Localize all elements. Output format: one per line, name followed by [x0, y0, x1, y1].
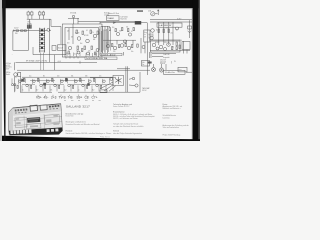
transistor Q24	[123, 40, 126, 43]
svg-text:Mikrofon und Batterien +: Mikrofon und Batterien +	[163, 107, 181, 110]
transistor Q20	[96, 84, 99, 87]
svg-text:100u: 100u	[164, 42, 167, 44]
scan frame bands	[0, 0, 200, 141]
resistor R11	[163, 29, 165, 33]
electrolytic C6	[22, 79, 24, 81]
spec text column right	[163, 103, 190, 137]
svg-text:2x BC148B AC188K TBA: 2x BC148B AC188K TBA	[86, 57, 108, 60]
power box PSU	[178, 67, 187, 72]
connector block box	[164, 70, 186, 74]
earphone jack J2	[188, 20, 192, 38]
transistor Q26	[106, 44, 110, 48]
transistor Q8	[167, 43, 171, 47]
transistor Q28	[120, 44, 124, 48]
svg-text:1R6: 1R6	[15, 33, 18, 35]
resistor R27	[115, 29, 116, 32]
svg-text:5k6: 5k6	[80, 43, 82, 45]
module box U1	[58, 45, 67, 51]
resistor R38	[176, 47, 177, 50]
svg-text:Reg: Reg	[144, 32, 147, 34]
electrolytic C9	[88, 84, 90, 86]
wire filter drop	[140, 38, 142, 53]
svg-text:S9+: S9+	[77, 95, 83, 99]
svg-text:220u 10V: 220u 10V	[160, 61, 166, 63]
resistor R12	[168, 29, 170, 33]
svg-text:Kassetten-Recorder mit Mikrofo: Kassetten-Recorder mit Mikrofon und Netz…	[66, 123, 101, 126]
svg-text:9V: 9V	[174, 61, 176, 63]
wire to cap	[100, 22, 147, 27]
resistor R4	[82, 31, 84, 35]
pulley P1	[132, 77, 135, 80]
label plate upper	[100, 52, 124, 56]
svg-text:SALLAND 3217: SALLAND 3217	[66, 104, 90, 108]
svg-text:7-B: 7-B	[68, 96, 73, 100]
wire lower schematic top border	[22, 76, 116, 78]
svg-text:Preisliste: Preisliste	[66, 129, 73, 132]
panel seams	[13, 112, 62, 133]
schematic tiny annotation texts	[6, 10, 183, 93]
svg-text:Geräte und Zubehör DM 248,- mi: Geräte und Zubehör DM 248,- mit allen Un…	[66, 132, 112, 135]
transistor Q35	[87, 52, 90, 55]
svg-text:DM 22,- mit Gehäuse und Taste: DM 22,- mit Gehäuse und Tasten	[113, 117, 138, 120]
svg-text:22k: 22k	[67, 31, 70, 33]
svg-text:2x 0,5W: 2x 0,5W	[149, 36, 155, 38]
svg-text:C7+: C7+	[92, 95, 98, 99]
svg-text:~: ~	[12, 54, 13, 56]
svg-text:Philips GmbH Hamburg: Philips GmbH Hamburg	[163, 133, 181, 136]
transistor Q32	[142, 46, 145, 49]
DIN socket J3	[11, 72, 20, 85]
resistor R13	[17, 85, 18, 88]
resistor R22	[80, 78, 81, 81]
resistor R39	[137, 44, 138, 47]
svg-text:47u: 47u	[99, 76, 102, 78]
motor switch box	[142, 61, 150, 67]
svg-text:0,2mV: 0,2mV	[14, 27, 18, 29]
svg-text:68k: 68k	[93, 39, 96, 41]
svg-text:6,3V~: 6,3V~	[177, 18, 182, 20]
front panel	[13, 112, 62, 135]
legend node C8	[85, 95, 89, 100]
svg-text:10u: 10u	[29, 76, 32, 78]
transistor Q11	[33, 80, 36, 83]
legend node 2P	[51, 95, 57, 100]
transistor Q15	[61, 80, 64, 83]
output stage frame	[151, 41, 181, 52]
svg-text:470u 16V: 470u 16V	[160, 60, 166, 62]
resistor R26	[109, 28, 110, 31]
wire arrow up	[155, 10, 159, 15]
wire lower mid lines	[22, 78, 113, 85]
wire lower link	[33, 47, 66, 55]
resistor R42	[95, 52, 96, 55]
transistor Q19	[89, 80, 92, 83]
spec text column center-right	[113, 103, 155, 135]
svg-text:10n: 10n	[131, 51, 134, 53]
wire block drops	[66, 57, 96, 64]
front section outlines	[15, 114, 60, 129]
transistor Q7	[159, 45, 163, 49]
svg-text:6V: 6V	[144, 36, 146, 38]
svg-text:}: }	[171, 60, 172, 64]
transistor Q17	[75, 80, 78, 83]
resistor R41	[82, 49, 83, 52]
transistor Q10	[26, 84, 29, 87]
resistor R15	[31, 85, 32, 88]
wire bottom right return	[166, 64, 192, 72]
svg-text:V5+: V5+	[36, 96, 42, 100]
cassette door	[27, 117, 40, 123]
amplifier block frame	[62, 24, 102, 57]
svg-text:1n: 1n	[78, 89, 80, 91]
svg-text:BC: BC	[43, 76, 45, 78]
resistor R31	[112, 44, 113, 47]
transistor Q14	[54, 84, 57, 87]
wire belt	[129, 79, 135, 86]
svg-text:100u 6V: 100u 6V	[160, 63, 165, 65]
svg-text:56: 56	[176, 30, 178, 32]
switch bank S1	[39, 28, 45, 53]
wire mid cluster bus	[103, 40, 136, 44]
svg-text:N 2217/00: N 2217/00	[66, 116, 74, 118]
svg-text:2n: 2n	[131, 31, 133, 33]
svg-text:TBA641: TBA641	[107, 17, 114, 20]
svg-text:2k2: 2k2	[171, 33, 173, 35]
lamp LA2	[151, 64, 155, 72]
svg-text:25u: 25u	[74, 54, 77, 56]
legend node 4S	[44, 95, 49, 100]
transistor Q3	[93, 34, 97, 38]
resistor R17	[45, 85, 46, 88]
svg-text:BC149: BC149	[75, 33, 79, 35]
wire motor leads	[100, 82, 116, 91]
svg-text:220: 220	[88, 51, 91, 53]
transistor Q5	[150, 36, 154, 40]
microphone jack J1	[12, 30, 15, 32]
transistor Q31	[164, 48, 167, 51]
pulley P2	[135, 84, 138, 87]
legend node V5	[36, 95, 42, 100]
resistor R36	[179, 45, 181, 49]
svg-text:Sw: Sw	[142, 64, 144, 66]
svg-text:8k2: 8k2	[104, 30, 106, 32]
transistor Q12	[40, 84, 43, 87]
svg-text:C8: C8	[85, 96, 89, 100]
knob row left	[15, 108, 28, 113]
svg-text:6x1,5V: 6x1,5V	[6, 65, 10, 67]
svg-text:TV-S: TV-S	[59, 95, 66, 99]
svg-text:0,1: 0,1	[86, 30, 88, 32]
svg-text:330: 330	[85, 76, 88, 78]
erase head K2	[39, 11, 45, 19]
wire motor bus pair	[117, 66, 130, 92]
wire right verticals	[159, 22, 173, 45]
transistor Q36	[96, 49, 99, 52]
svg-text:100u: 100u	[76, 51, 79, 53]
wire feeder marks	[150, 52, 152, 58]
transistor Q23	[116, 32, 119, 35]
svg-text:15k: 15k	[126, 27, 129, 29]
wire output bus	[149, 39, 180, 41]
resistor R16	[38, 78, 39, 81]
top edge line	[13, 104, 61, 109]
piano keys	[10, 129, 31, 134]
label plate lower	[85, 57, 117, 60]
idler wheel	[110, 78, 113, 81]
wire top dash	[137, 10, 143, 11]
side face	[9, 108, 14, 136]
svg-text:56k: 56k	[71, 76, 74, 78]
resistor R30	[133, 28, 134, 31]
svg-text:B-30: B-30	[149, 38, 152, 40]
svg-text:Teile sind vorbehalten: Teile sind vorbehalten	[163, 126, 179, 129]
svg-text:4,7k: 4,7k	[91, 32, 94, 34]
legend node 7B	[68, 95, 73, 100]
svg-text:100: 100	[57, 76, 60, 78]
resistor R2b	[24, 30, 26, 31]
svg-text:B30: B30	[180, 40, 183, 42]
transistor Q21	[103, 80, 106, 83]
transistor Q9	[19, 80, 22, 83]
svg-text:4k7: 4k7	[36, 89, 38, 91]
transistor Q34	[77, 51, 80, 54]
svg-text:1k5: 1k5	[112, 27, 114, 29]
filter box F1	[144, 30, 150, 42]
resistor R21	[73, 85, 74, 88]
wire right feeder	[147, 23, 149, 75]
wire switch drops	[41, 53, 44, 71]
resistor R28	[122, 28, 123, 31]
resistor R25	[101, 85, 102, 88]
capacitor bank C5	[12, 78, 113, 92]
legend symbol row	[36, 95, 98, 100]
transistor Q2	[86, 39, 90, 43]
resistor R10	[158, 29, 160, 33]
transistor Q37	[176, 27, 179, 30]
svg-text:0,5: 0,5	[172, 47, 174, 49]
resistor R19	[59, 85, 60, 88]
resistor R5	[90, 30, 92, 34]
svg-text:DIN 5p: DIN 5p	[6, 72, 11, 74]
label box IC type	[107, 16, 120, 21]
resistor R29	[128, 29, 129, 32]
oscillator coil L1	[27, 25, 31, 28]
VU meter right	[40, 104, 48, 110]
capacitor C1	[52, 46, 56, 51]
fuse F2	[148, 62, 151, 63]
wire mid bus	[14, 62, 97, 70]
svg-text:4S-: 4S-	[44, 95, 49, 99]
resistor R3	[76, 30, 78, 34]
wire input line	[13, 30, 51, 32]
svg-text:BC148: BC148	[84, 35, 88, 37]
svg-text:3n3: 3n3	[67, 43, 70, 45]
transistor Q1	[77, 37, 81, 41]
wire left rail	[13, 28, 29, 50]
label box output	[157, 23, 182, 27]
wire top right rail	[150, 20, 192, 23]
resistor R6	[97, 31, 99, 35]
resistor R33	[125, 44, 126, 47]
svg-text:8k2: 8k2	[92, 89, 94, 91]
resistor R9	[91, 46, 93, 50]
transistor Q6	[152, 43, 156, 47]
resistor R32	[119, 45, 120, 48]
svg-text:2+3: 2+3	[51, 96, 57, 100]
transistor Q29	[127, 46, 131, 50]
svg-text:220: 220	[113, 51, 116, 53]
wire block feed	[69, 24, 73, 44]
transistor Q30	[156, 47, 159, 50]
svg-text:220V~: 220V~	[6, 68, 10, 70]
svg-text:nur über den Werkstatt-Service: nur über den Werkstatt-Service erhältlic…	[113, 125, 144, 128]
transistor Q13	[47, 80, 50, 83]
svg-text:12k: 12k	[98, 33, 101, 35]
resistor R8	[84, 46, 86, 50]
wire supply verticals	[100, 26, 108, 55]
product photo cassette recorder	[9, 104, 63, 136]
front small marks	[16, 114, 59, 127]
resistor R20	[66, 78, 67, 81]
top control strip	[13, 104, 62, 117]
faint service smudge	[100, 135, 110, 138]
svg-text:330: 330	[119, 31, 122, 33]
capacitor C2 electrolytic	[135, 21, 141, 24]
wire lower left rail	[15, 76, 21, 92]
electrolytic C8	[66, 79, 68, 81]
VU meter left	[30, 105, 38, 112]
amplifier inner frame	[65, 28, 99, 58]
record/play head K1	[27, 11, 33, 19]
lamp LA1	[68, 15, 79, 24]
resistor R1	[16, 30, 19, 31]
resistor R34	[132, 45, 133, 48]
wire lower schematic bottom border	[20, 72, 140, 92]
resistor R23	[87, 85, 88, 88]
svg-text:Ri=8 Ohm: Ri=8 Ohm	[121, 18, 128, 20]
svg-text:85kHz: 85kHz	[27, 23, 32, 25]
transistor Q18	[82, 84, 85, 87]
resistor R40	[68, 51, 69, 54]
svg-text:22k: 22k	[50, 89, 53, 91]
wire supply rail B	[78, 18, 135, 24]
rectifier block D1	[182, 42, 190, 50]
transistor Q25	[128, 33, 131, 36]
resistor R7	[77, 46, 79, 50]
svg-text:2u2: 2u2	[64, 89, 67, 91]
svg-text:470: 470	[166, 27, 169, 29]
wire bottom border upper schematic	[17, 69, 150, 71]
wire inner tick row	[67, 53, 97, 57]
resistor R2	[21, 30, 24, 31]
resistor R14	[24, 78, 25, 81]
legend node S9	[77, 95, 83, 100]
svg-text:Daten Teilliste N 2217: Daten Teilliste N 2217	[113, 105, 129, 108]
legend node C7	[92, 95, 98, 100]
svg-text:Radio: Radio	[6, 74, 10, 76]
button group right	[49, 105, 59, 110]
transistor Q27	[113, 46, 117, 50]
svg-text:2x AC188K 1W: 2x AC188K 1W	[159, 24, 172, 27]
electrolytic C7	[44, 83, 46, 85]
wire right drop	[49, 19, 61, 70]
meter M1	[151, 12, 155, 16]
svg-text:4u7: 4u7	[106, 43, 109, 45]
transistor Q0	[47, 28, 50, 31]
device outline	[9, 104, 63, 136]
motor M2 star	[113, 75, 124, 85]
wire right lower bus	[150, 41, 190, 57]
svg-text:47n: 47n	[94, 54, 97, 56]
legend node TV	[59, 95, 66, 100]
base buttons right	[47, 129, 59, 133]
title model name	[66, 104, 90, 108]
spec text column middle	[66, 112, 112, 135]
transistor Q16	[68, 84, 71, 87]
wire regulator drop	[144, 42, 146, 53]
svg-text:kostenlos: kostenlos	[163, 116, 170, 119]
transistor Q4	[151, 29, 155, 33]
terminal strip X1	[100, 90, 107, 93]
faint remnant dashes	[64, 99, 101, 102]
transistor Q33	[68, 46, 71, 49]
lamp LA3	[159, 64, 163, 72]
resistor R18	[52, 78, 53, 81]
svg-text:BC148 B + AC132: BC148 B + AC132	[101, 53, 116, 56]
base dark strip	[9, 127, 63, 135]
svg-text:über die Philips Vertriebs-Org: über die Philips Vertriebs-Organisation	[113, 132, 142, 135]
resistor R35	[176, 42, 178, 46]
wire osc feed	[28, 19, 30, 25]
wire head bus	[27, 18, 51, 20]
resistor R24	[94, 78, 95, 81]
resistor R37	[172, 47, 173, 50]
transistor Q22	[100, 29, 111, 52]
